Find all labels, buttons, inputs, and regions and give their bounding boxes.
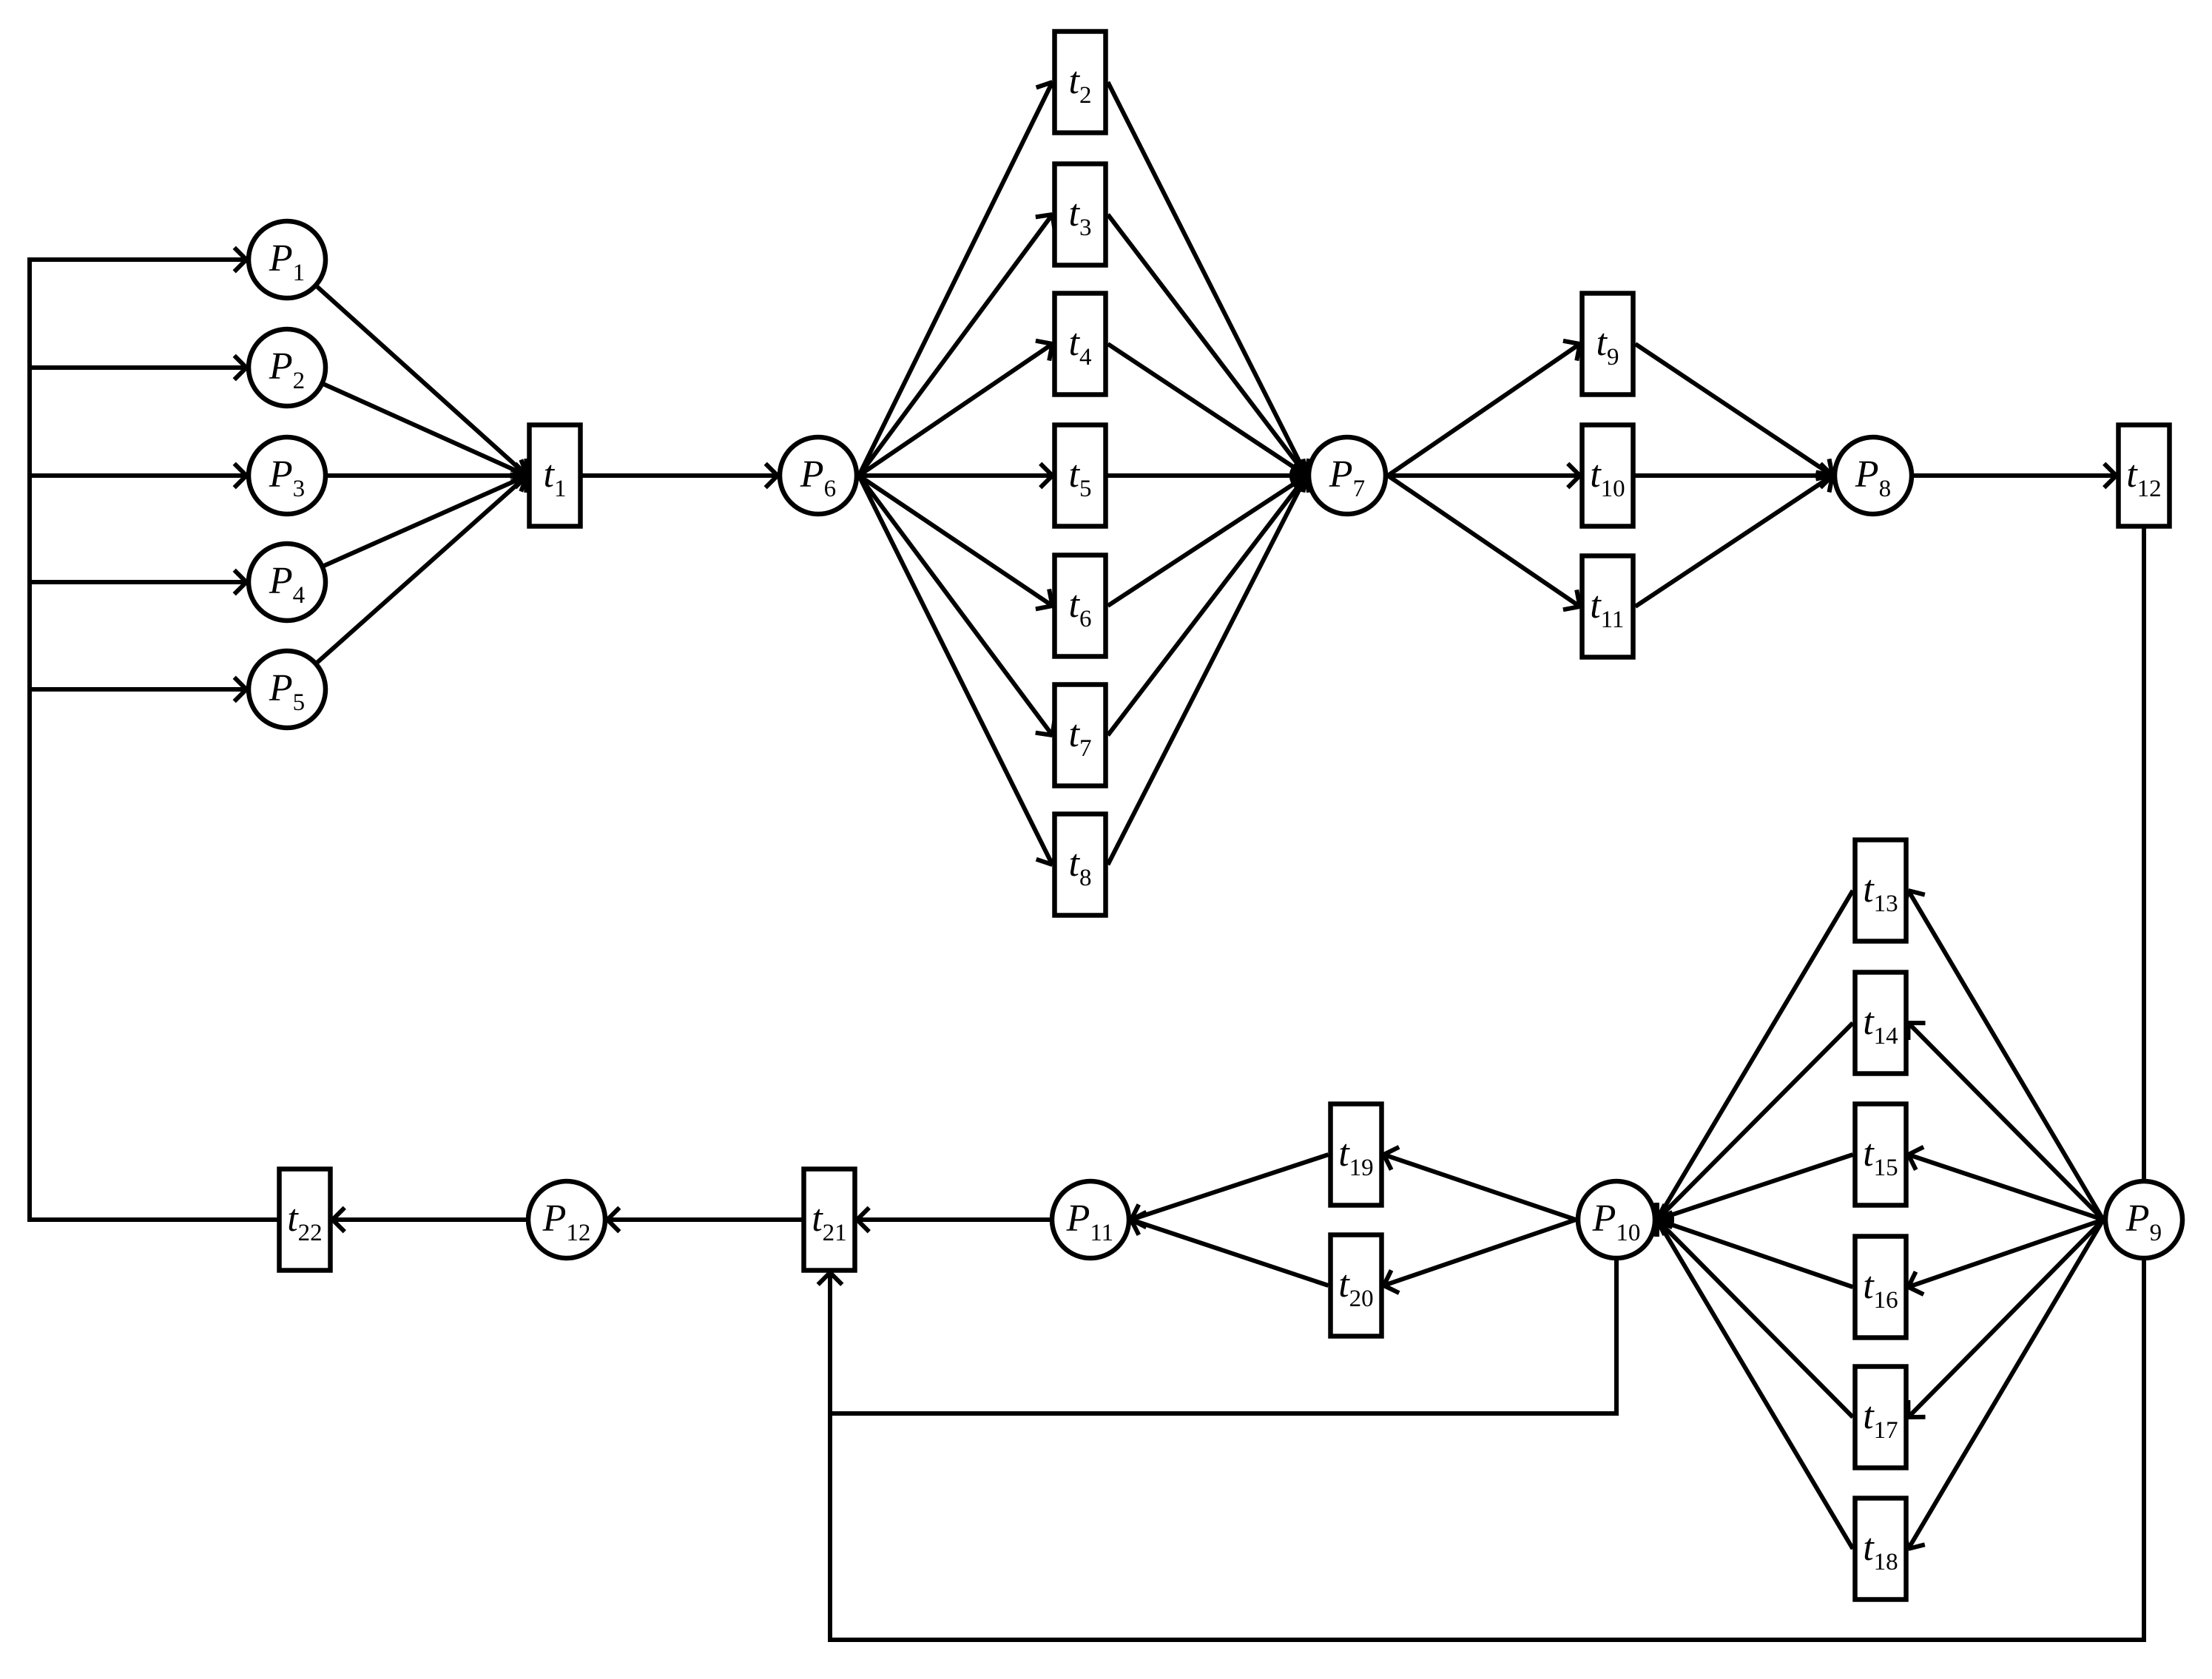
wire t11->P8 [1636,473,1833,607]
wire P6->t8 [859,476,1058,865]
wire P6->t7 [859,476,1055,735]
wire P10 feedback down [1614,1260,1619,1413]
transition t11 [1582,556,1633,658]
place P1 [249,221,326,298]
wire P8->t12 [1914,464,2117,488]
wire P5->t1 [317,475,527,663]
place P9 [2105,1181,2182,1258]
wire P9->t16 [1909,1220,2104,1294]
wire P6->t2 [859,82,1058,476]
wire P10->t20 [1384,1220,1577,1293]
wire t18->P10 [1653,1220,1852,1549]
wire t21->P12 [607,1208,802,1232]
place P8 [1835,437,1912,514]
transition t18 [1855,1499,1906,1600]
place P12 [528,1181,605,1258]
place P3 [249,437,326,514]
wire t5->P7 [1108,464,1307,488]
wire P7->t10 [1388,464,1580,488]
wire t10->P8 [1636,464,1833,488]
transition t16 [1855,1237,1906,1338]
wire P6->t4 [859,341,1053,476]
wire P6->t5 [859,464,1053,488]
wire t16->P10 [1657,1212,1853,1287]
wire rail->P2 [30,356,246,380]
wire t22->rail [27,1217,277,1222]
wire P3->t1 [328,464,527,488]
place P5 [249,651,326,728]
wire P6->t3 [859,214,1055,476]
wire t1->P6 [583,464,778,488]
wire t19->P11 [1131,1155,1329,1227]
wire t2->P7 [1108,82,1312,476]
place P10 [1578,1181,1655,1258]
transition t10 [1582,425,1633,527]
transition t22 [280,1169,331,1271]
wire t3->P7 [1108,214,1309,476]
transition t7 [1055,685,1106,786]
transition t14 [1855,973,1906,1074]
wire P9->t13 [1904,891,2103,1220]
transition t21 [804,1169,855,1271]
transition t9 [1582,294,1633,395]
wire P12->t22 [333,1208,527,1232]
place P4 [249,544,326,621]
place P11 [1052,1181,1129,1258]
wire P9->t15 [1909,1147,2104,1220]
wire t4->P7 [1108,344,1307,479]
transition t12 [2119,425,2170,527]
wire t14->P10 [1657,1023,1853,1220]
wire t17->P10 [1657,1220,1853,1417]
transition t3 [1055,164,1106,266]
place P2 [249,329,326,406]
transition t2 [1055,32,1106,133]
wire feedback->t21 bottom [818,1273,843,1641]
wire P9->t18 [1904,1220,2103,1549]
wire P1->t1 [317,287,527,476]
transition t5 [1055,425,1106,527]
transition t8 [1055,814,1106,916]
place P6 [780,437,857,514]
wire t8->P7 [1108,476,1312,865]
wire t20->P11 [1131,1212,1329,1286]
wire t13->P10 [1653,891,1852,1220]
transition t17 [1855,1367,1906,1468]
wire t9->P8 [1636,344,1833,479]
wire rail->P5 [30,678,246,702]
wire P7->t9 [1388,341,1580,476]
wire t15->P10 [1657,1155,1853,1227]
transition t20 [1331,1235,1382,1337]
transition t15 [1855,1104,1906,1206]
wire P2->t1 [324,385,527,482]
wire left feedback rail t22 to P1-P5 [27,257,32,1222]
wire P10->t19 [1384,1147,1577,1220]
place P7 [1309,437,1386,514]
transition t4 [1055,294,1106,395]
transition t19 [1331,1104,1382,1206]
wire bottom feedback horizontal [828,1638,2146,1642]
wire t6->P7 [1108,472,1307,606]
wire P9->t14 [1908,1023,2103,1220]
wire t7->P7 [1108,476,1309,735]
wire P6->t6 [859,476,1053,609]
wire P9->t17 [1908,1220,2103,1417]
wire P9 feedback down [2142,1260,2146,1642]
wire P10 feedback left [828,1411,1619,1416]
wire P11->t21 [857,1208,1051,1232]
wire P4->t1 [324,470,527,566]
wire rail->P3 [30,464,246,488]
transition t1 [530,425,581,527]
transition t13 [1855,840,1906,942]
wire t12->P9 vertical [2142,529,2146,1180]
wire P7->t11 [1388,476,1580,609]
wire rail->P4 [30,570,246,595]
transition t6 [1055,555,1106,657]
wire rail->P1 [30,248,246,272]
